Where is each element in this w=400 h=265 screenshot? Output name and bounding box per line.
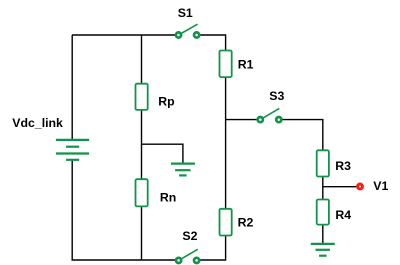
- svg-text:R3: R3: [335, 159, 351, 173]
- svg-text:V1: V1: [373, 179, 388, 193]
- svg-text:R4: R4: [335, 208, 351, 222]
- switch S2: [176, 249, 199, 263]
- wire: top rail to Rp top: [141, 35, 143, 84]
- switch S3: [258, 108, 282, 122]
- resistor R4: [317, 200, 329, 225]
- wire: R4 bottom to right ground: [322, 225, 324, 244]
- node V1 (probe terminal): [358, 184, 363, 189]
- wire: R3 bottom to R4 top: [322, 177, 324, 200]
- wire: node to V1 probe: [323, 186, 360, 188]
- wire: battery bottom to bottom-left corner and bottom rail to S2: [72, 160, 178, 260]
- wire: R1 bottom through S3 junction to R2 top: [225, 77, 227, 209]
- ground (right, below R4): [311, 244, 335, 256]
- wire: midpoint stub to middle ground: [142, 144, 183, 163]
- svg-text:Rp: Rp: [158, 94, 174, 108]
- svg-text:R2: R2: [238, 216, 254, 230]
- svg-text:S3: S3: [269, 89, 284, 103]
- wire: Rp bottom to Rn top: [141, 110, 143, 179]
- switch S1: [176, 24, 199, 37]
- resistor R2: [220, 209, 232, 236]
- wire: S2 right terminal to R2 bottom: [197, 236, 226, 261]
- battery Vdc_link: [56, 140, 89, 160]
- svg-text:S2: S2: [182, 229, 197, 243]
- ground (middle, below Rp): [171, 164, 195, 176]
- wire: S3 right terminal to R3 top: [279, 120, 323, 151]
- resistor Rp: [136, 84, 148, 110]
- resistor R3: [317, 150, 329, 176]
- resistor Rn: [136, 179, 148, 206]
- resistor R1: [220, 51, 232, 78]
- wire: junction to S3 left terminal: [226, 119, 261, 121]
- svg-text:S1: S1: [178, 6, 193, 20]
- svg-text:R1: R1: [238, 58, 254, 72]
- svg-text:Rn: Rn: [160, 191, 176, 205]
- wire: left rail down to battery top: [71, 35, 73, 140]
- wire: S1 right terminal to R1 top: [197, 35, 226, 51]
- wire: Rn bottom to bottom rail: [141, 206, 143, 260]
- svg-text:Vdc_link: Vdc_link: [12, 116, 63, 130]
- wire: top rail from left branch to S1: [72, 34, 179, 36]
